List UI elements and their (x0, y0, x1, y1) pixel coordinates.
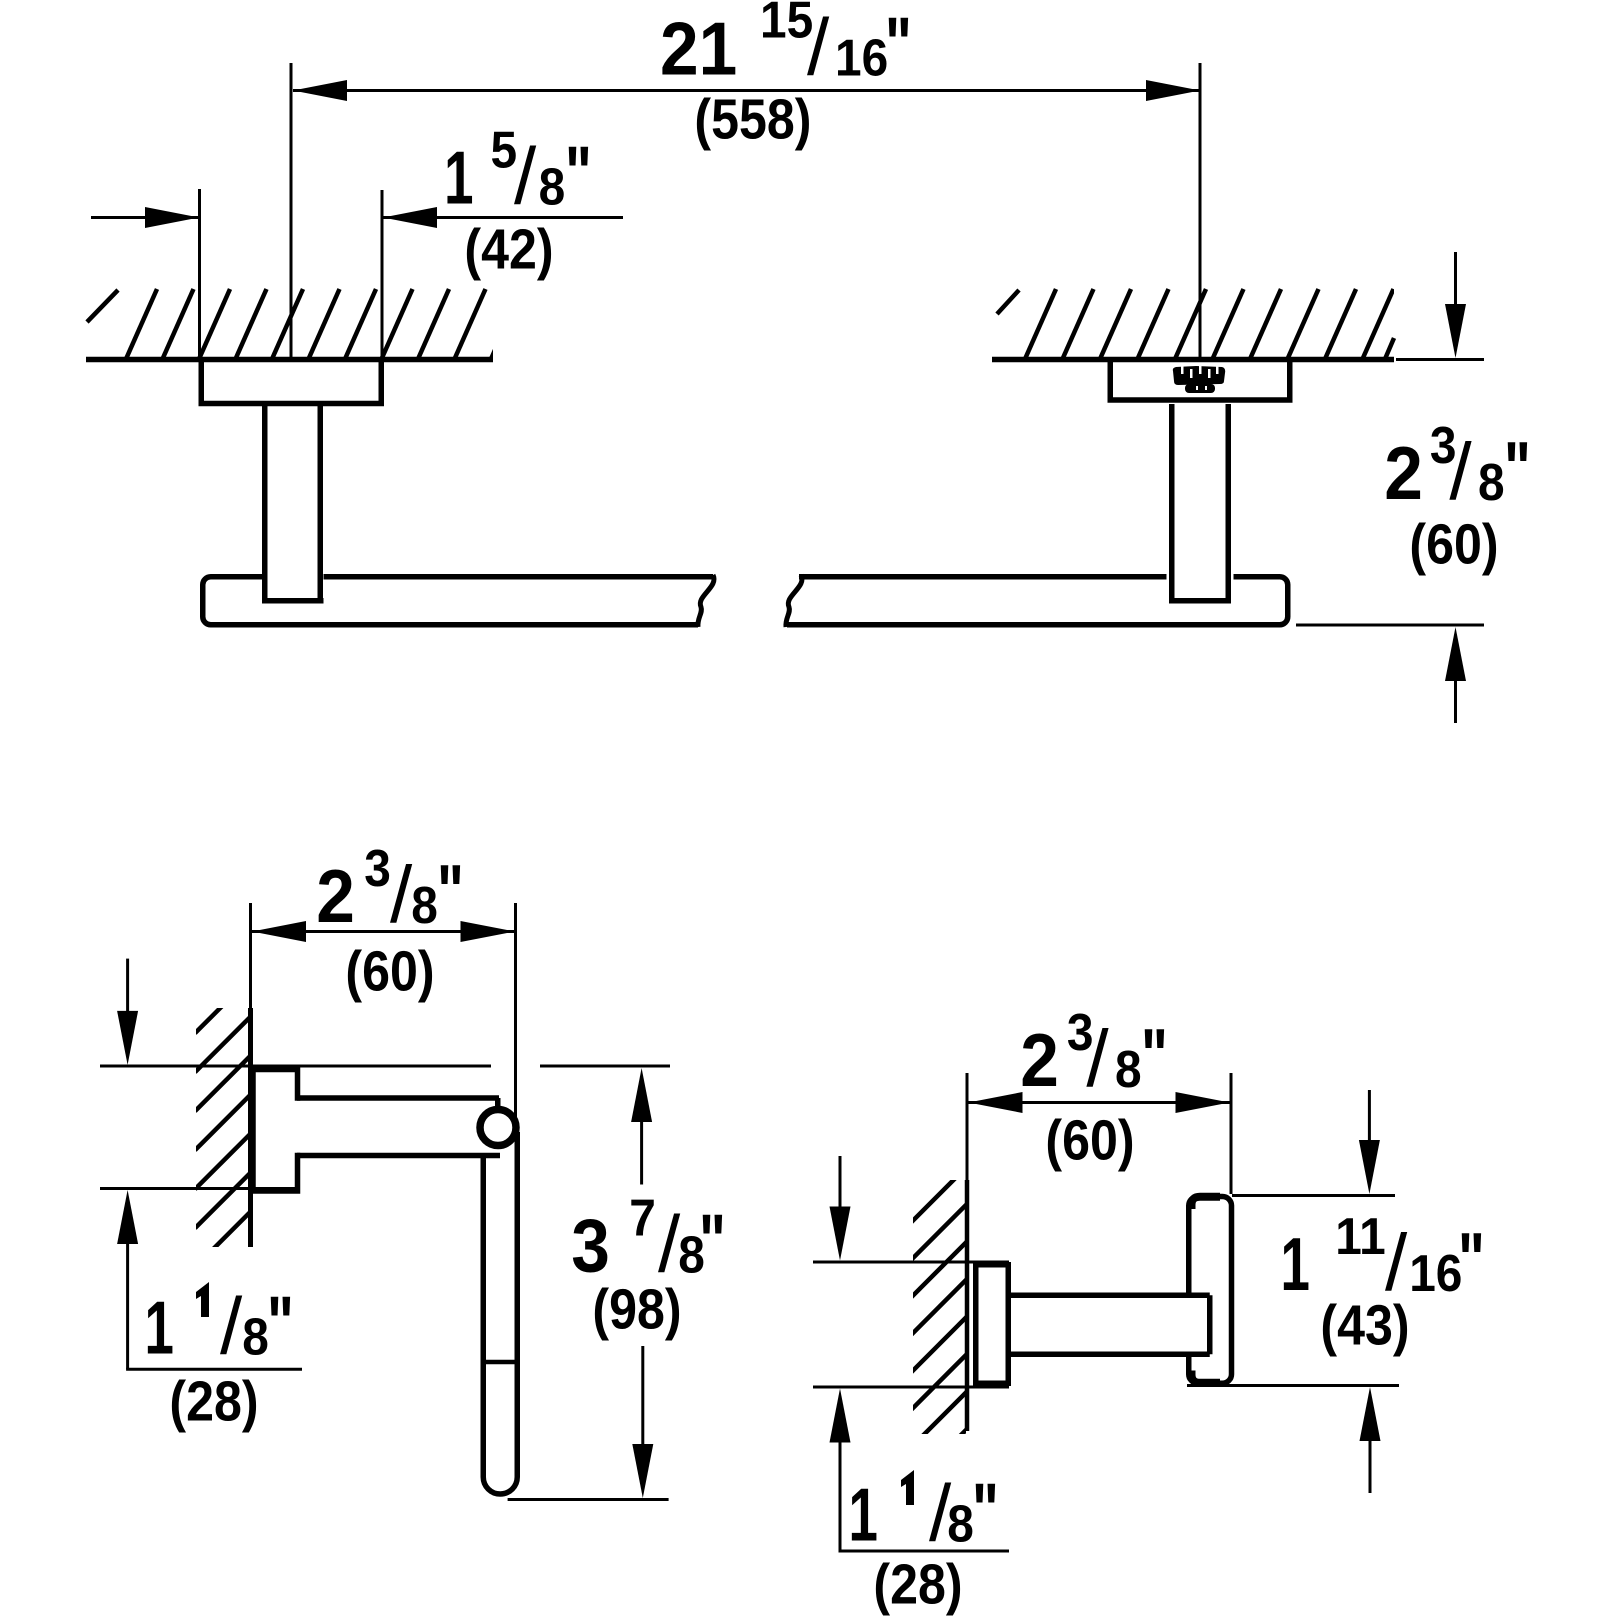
down arrow stem 1 11/16 (1368, 1090, 1371, 1144)
bottom reference line paper holder (100, 1187, 295, 1190)
up arrowhead 1 11/16 (1360, 1387, 1381, 1441)
svg-text:/: / (514, 132, 537, 221)
extension line right of robe hook 2 3/8 dim (1230, 1073, 1233, 1194)
svg-text:8: 8 (1115, 1040, 1142, 1098)
svg-text:": " (565, 132, 592, 216)
robe hook wall hatching (912, 1167, 968, 1485)
paper holder arm fill (280, 1101, 497, 1153)
svg-text:8: 8 (1478, 453, 1505, 511)
left wall surface line (86, 357, 493, 363)
svg-text:(60): (60) (1409, 513, 1498, 577)
svg-text:21: 21 (660, 7, 737, 91)
left mount post right edge (318, 404, 324, 601)
svg-text:/: / (1449, 427, 1472, 516)
right wall hatching (1025, 289, 1394, 359)
towel bar left piece (203, 577, 713, 625)
svg-text:": " (267, 1282, 294, 1366)
left mount centerline (290, 63, 293, 358)
up arrowhead 1 1/8 robe hook (830, 1389, 851, 1443)
left wall hatching (126, 289, 522, 359)
top reference line 1 1/8 robe hook (813, 1261, 1009, 1264)
towel bar right piece break line (786, 575, 802, 627)
svg-text:(28): (28) (169, 1370, 258, 1434)
paper holder pendulum bar (483, 1132, 517, 1494)
GROHE logo on right mount plate (1173, 366, 1225, 393)
left mount post fill (262, 356, 324, 598)
robe hook plate bottom edge accent (1192, 1371, 1221, 1383)
leader line 1 1/8 robe hook (839, 1550, 1010, 1553)
up arrow stem 1 11/16 (1369, 1441, 1372, 1493)
left arrowhead 2 3/8 robe hook (969, 1092, 1023, 1113)
svg-text:8: 8 (947, 1495, 974, 1553)
right mount post fill (1167, 356, 1234, 598)
paper holder arm bottom edge (297, 1153, 500, 1159)
extension line bottom right 2 3/8 dim (1296, 624, 1484, 627)
svg-text:": " (1458, 1218, 1485, 1302)
robe hook stem bottom edge (1009, 1352, 1210, 1358)
svg-text:8: 8 (411, 876, 438, 934)
svg-text:(28): (28) (873, 1553, 962, 1617)
up arrowhead 3 7/8 (631, 1068, 652, 1122)
top reference line right segment (540, 1065, 670, 1068)
svg-text:": " (437, 850, 464, 934)
dimension line 21 15/16 (293, 89, 1200, 92)
up arrow stem 1 1/8 (126, 1244, 129, 1369)
dimension leader right 1 5/8 (383, 216, 623, 219)
svg-text:/: / (1086, 1014, 1109, 1103)
extension line left of robe hook 2 3/8 dim (966, 1073, 969, 1180)
svg-text:(60): (60) (1045, 1109, 1134, 1173)
svg-text:(60): (60) (345, 940, 434, 1004)
extension line left of 1 5/8 dim (198, 189, 201, 358)
svg-text:": " (1504, 427, 1531, 511)
svg-text:7: 7 (629, 1189, 656, 1247)
top reference line 1 11/16 (1232, 1194, 1395, 1197)
towel bar right piece (787, 577, 1288, 625)
robe hook plate top edge accent (1192, 1197, 1221, 1209)
extension line left of paper holder 2 3/8 dim (249, 903, 252, 1008)
down arrowhead 2 3/8 dim (1445, 304, 1466, 358)
svg-text:(42): (42) (464, 218, 553, 282)
right wall partial hatch (997, 290, 1019, 314)
left arrowhead 2 3/8 paper holder (252, 921, 306, 942)
svg-text:2: 2 (1020, 1018, 1059, 1102)
bottom reference line 1 1/8 robe hook (813, 1386, 1009, 1389)
left mount post left edge (262, 404, 268, 601)
right mount centerline (1199, 63, 1202, 358)
svg-text:": " (1141, 1014, 1168, 1098)
up arrowhead 2 3/8 dim (1445, 627, 1466, 681)
down arrowhead 1 1/8 (117, 1011, 138, 1065)
arrowhead pointing right at 1 5/8 dim (145, 207, 199, 228)
top reference line paper holder (100, 1065, 491, 1068)
down arrow stem 2 3/8 dim (1454, 252, 1457, 312)
up arrow stem 1 1/8 robe hook (839, 1443, 842, 1552)
fraction numerator 1 (901, 1470, 914, 1505)
right arrowhead 2 3/8 paper holder (461, 921, 515, 942)
svg-text:1: 1 (145, 1285, 174, 1370)
left mount plate (201, 359, 381, 404)
bottom reference line 3 7/8 (508, 1498, 669, 1501)
svg-text:1: 1 (849, 1472, 878, 1557)
bottom reference line 1 11/16 (1187, 1384, 1399, 1387)
down arrowhead 1 11/16 (1359, 1140, 1380, 1194)
robe hook stem right edge (1207, 1295, 1213, 1354)
svg-text:/: / (390, 850, 413, 939)
right wall surface line (992, 357, 1394, 363)
paper holder wall line (248, 1008, 253, 1247)
extension line right of paper holder 2 3/8 dim (514, 903, 517, 1122)
left wall partial hatch (87, 290, 118, 322)
svg-text:11: 11 (1335, 1207, 1386, 1265)
svg-text:(43): (43) (1320, 1294, 1409, 1358)
extension line top right 2 3/8 dim (1396, 358, 1484, 361)
svg-text:8: 8 (539, 158, 566, 216)
svg-text:3: 3 (571, 1204, 610, 1288)
right mount post bottom edge (1169, 598, 1231, 604)
arrowhead right of 21 15/16 dim (1146, 80, 1200, 101)
svg-text:": " (885, 3, 912, 87)
svg-text:2: 2 (1384, 431, 1423, 515)
fraction numerator 1 (196, 1282, 209, 1317)
paper holder mount plate (253, 1070, 298, 1192)
right arrowhead 2 3/8 robe hook (1176, 1092, 1230, 1113)
svg-text:2: 2 (316, 854, 355, 938)
down arrow stem 1 1/8 robe hook (839, 1156, 842, 1212)
towel bar left piece break line (698, 575, 714, 627)
svg-text:/: / (220, 1281, 243, 1370)
pendulum tick line (481, 1360, 520, 1365)
robe hook stem fill (1008, 1298, 1207, 1352)
arrowhead pointing left at 1 5/8 dim (383, 207, 437, 228)
svg-text:3: 3 (364, 839, 391, 897)
svg-text:1: 1 (1281, 1222, 1310, 1307)
svg-text:": " (699, 1200, 726, 1284)
right mount plate (1110, 359, 1290, 401)
extension line right of 1 5/8 dim (381, 190, 384, 358)
dimension line 2 3/8 paper holder (251, 930, 517, 933)
upper stem 3 7/8 (640, 1122, 643, 1185)
svg-text:(98): (98) (592, 1278, 681, 1342)
dimension leader left 1 5/8 (91, 216, 199, 219)
paper holder arm top edge (297, 1095, 499, 1101)
right mount post right edge (1226, 404, 1232, 601)
paper holder pivot circle (480, 1110, 516, 1146)
up arrowhead 1 1/8 (117, 1190, 138, 1244)
robe hook stem top edge (1009, 1293, 1210, 1299)
down arrow stem 1 1/8 (126, 959, 129, 1016)
robe hook wall line (965, 1180, 970, 1431)
left mount post bottom edge (262, 598, 324, 604)
svg-text:16: 16 (1409, 1244, 1462, 1302)
svg-text:(558): (558) (694, 87, 811, 151)
svg-text:16: 16 (835, 29, 888, 87)
svg-text:/: / (807, 3, 830, 92)
svg-text:": " (972, 1469, 999, 1553)
right wall partial hatch 2 (1385, 338, 1394, 359)
svg-text:1: 1 (444, 135, 473, 220)
arrowhead left of 21 15/16 dim (293, 80, 347, 101)
robe hook plate (1189, 1197, 1232, 1384)
paper holder wall hatching (195, 978, 251, 1306)
svg-text:15: 15 (760, 0, 813, 49)
right mount post left edge (1169, 404, 1175, 601)
down arrowhead 1 1/8 robe hook (830, 1207, 851, 1261)
down arrowhead 3 7/8 (632, 1444, 653, 1498)
up arrow stem 2 3/8 dim (1454, 681, 1457, 723)
robe hook mount plate (976, 1265, 1009, 1384)
svg-text:8: 8 (242, 1308, 269, 1366)
paper holder arm right edge (495, 1098, 501, 1110)
leader line 1 1/8 (126, 1368, 302, 1371)
dimension line 2 3/8 robe hook (967, 1101, 1231, 1104)
lower stem 3 7/8 (641, 1346, 644, 1450)
